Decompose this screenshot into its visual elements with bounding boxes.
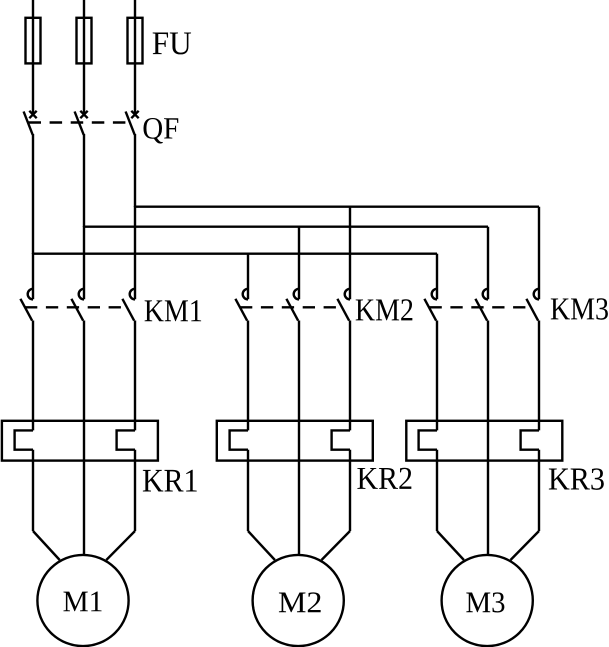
breaker QF pole 1 blade [24, 112, 33, 135]
thermal relay KR2 heater element pole1 [230, 430, 248, 449]
wire KR1 pole1 heater down [32, 450, 34, 531]
motor M3 circle [442, 555, 533, 646]
label KM3 [551, 298, 608, 320]
wire drop bus B corner to KM3 pole2 [487, 227, 489, 300]
wire phase L3 incoming, runs through fuse to breaker [134, 0, 136, 113]
wire M1 pole1 diagonal into motor [33, 531, 60, 560]
thermal relay KR3 heater element pole3 [521, 430, 539, 449]
wire drop bus C corner to KM3 pole3 [538, 207, 540, 300]
wire KR2 pole2 contactor through relay box to motor [298, 321, 300, 558]
label FU (fuses) [153, 32, 191, 54]
contactor KM1 pole 1 blade [20, 299, 32, 321]
wire M2 pole1 diagonal into motor [248, 531, 275, 560]
thermal relay KR2 box [217, 421, 373, 461]
contactor KM1 pole 3 blade [122, 299, 134, 321]
label KM2 [356, 299, 413, 320]
breaker QF pole 2 blade [75, 112, 84, 135]
label KR3 [549, 468, 604, 490]
label KR1 [143, 470, 197, 492]
wire KR1 pole2 contactor through relay box to motor [83, 321, 85, 558]
wire M3 pole1 diagonal into motor [437, 531, 464, 560]
wire L3 breaker to bus C [134, 134, 136, 207]
contactor KM2 pole 1 fixed contact arc [243, 289, 248, 300]
wire M2 pole3 diagonal into motor [322, 531, 351, 560]
label M2 (motor 2) [279, 592, 321, 612]
wire L2 bus junction to KM1 pole2 [83, 226, 85, 299]
motor M1 circle [37, 555, 128, 646]
contactor KM1 pole 1 fixed contact arc [28, 289, 33, 300]
contactor KM1 pole 3 fixed contact arc [130, 289, 135, 300]
thermal relay KR1 box [2, 421, 158, 461]
contactor KM3 pole 1 fixed contact arc [432, 289, 437, 300]
contactor KM2 pole 3 fixed contact arc [345, 289, 350, 300]
wire KR3 pole3 contactor to heater [538, 321, 540, 431]
contactor KM2 pole 2 fixed contact arc [294, 289, 299, 300]
fuse FU pole 2 [77, 18, 92, 64]
wire KR3 pole1 contactor to heater [436, 321, 438, 431]
motor M2 circle [253, 555, 344, 646]
bus B horizontal (middle, y=227) [84, 225, 488, 227]
thermal relay KR1 heater element pole1 [15, 430, 33, 449]
label KM1 [145, 300, 202, 321]
label M3 (motor 3) [466, 592, 504, 612]
bus C horizontal (top, y=207) [135, 205, 539, 207]
wire L1 breaker to bus A [32, 134, 34, 254]
breaker QF pole 1 fixed-contact cross [29, 111, 36, 118]
thermal relay KR3 heater element pole1 [419, 430, 437, 449]
breaker QF linkage dashed line [29, 121, 132, 123]
wire drop bus A to KM2 pole1 [247, 254, 249, 300]
wire L3 bus junction to KM1 pole3 [134, 206, 136, 299]
bus A horizontal (bottom, y=254) [33, 252, 437, 254]
breaker QF pole 3 fixed-contact cross [131, 111, 138, 118]
wire KR2 pole1 contactor to heater [247, 321, 249, 431]
wire M3 pole3 diagonal into motor [511, 531, 540, 560]
thermal relay KR3 box [406, 421, 562, 461]
label QF (circuit breaker) [143, 118, 178, 144]
wire L1 bus junction to KM1 pole1 [32, 253, 34, 299]
wire phase L1 incoming, runs through fuse to breaker [32, 0, 34, 113]
contactor KM3 pole 1 blade [424, 299, 436, 321]
wire M1 pole3 diagonal into motor [106, 531, 135, 560]
contactor KM2 linkage dashed line [240, 306, 342, 308]
wire KR3 pole3 heater down [538, 450, 540, 531]
contactor KM1 pole 2 blade [71, 299, 83, 321]
wire KR1 pole3 contactor to heater [134, 321, 136, 431]
thermal relay KR1 heater element pole3 [117, 430, 135, 449]
contactor KM3 linkage dashed line [430, 306, 532, 308]
wire KR3 pole2 contactor through relay box to motor [487, 321, 489, 558]
fuse FU pole 1 [26, 18, 41, 64]
wire KR3 pole1 heater down [436, 450, 438, 531]
label M1 (motor 1) [63, 591, 101, 611]
label KR2 [357, 468, 411, 489]
wire drop bus A corner to KM3 pole1 [436, 254, 438, 300]
wire KR2 pole1 heater down [247, 450, 249, 531]
contactor KM3 pole 3 fixed contact arc [534, 289, 539, 300]
fuse FU pole 3 [128, 18, 143, 64]
contactor KM2 pole 2 blade [286, 299, 298, 321]
wire KR2 pole3 heater down [349, 450, 351, 531]
contactor KM3 pole 2 fixed contact arc [483, 289, 488, 300]
wire drop bus C to KM2 pole3 [349, 207, 351, 300]
wire KR1 pole1 contactor to heater [32, 321, 34, 431]
wire KR1 pole3 heater down [134, 450, 136, 531]
contactor KM1 linkage dashed line [25, 306, 127, 308]
breaker QF pole 3 blade [126, 112, 135, 135]
thermal relay KR2 heater element pole3 [332, 430, 350, 449]
contactor KM1 pole 2 fixed contact arc [79, 289, 84, 300]
wire KR2 pole3 contactor to heater [349, 321, 351, 431]
contactor KM3 pole 3 blade [526, 299, 538, 321]
wire L2 breaker to bus B [83, 134, 85, 227]
contactor KM2 pole 1 blade [235, 299, 247, 321]
wire phase L2 incoming, runs through fuse to breaker [83, 0, 85, 113]
wire drop bus B to KM2 pole2 [298, 227, 300, 300]
contactor KM2 pole 3 blade [337, 299, 349, 321]
breaker QF pole 2 fixed-contact cross [80, 111, 87, 118]
contactor KM3 pole 2 blade [475, 299, 487, 321]
